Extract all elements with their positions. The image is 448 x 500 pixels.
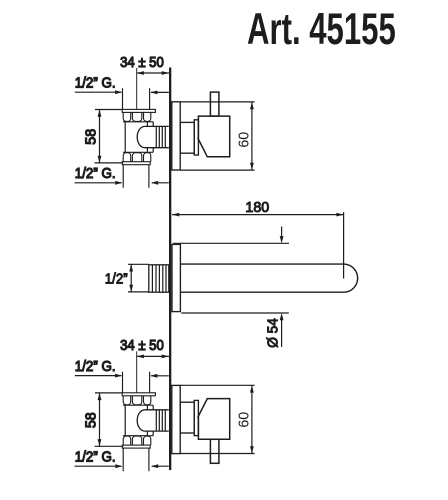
svg-text:60: 60	[237, 412, 253, 428]
svg-text:1/2”: 1/2”	[105, 272, 128, 288]
svg-text:60: 60	[237, 132, 253, 148]
svg-text:Ø 54: Ø 54	[266, 318, 282, 348]
svg-text:Art. 45155: Art. 45155	[247, 5, 396, 54]
svg-text:180: 180	[245, 200, 269, 216]
